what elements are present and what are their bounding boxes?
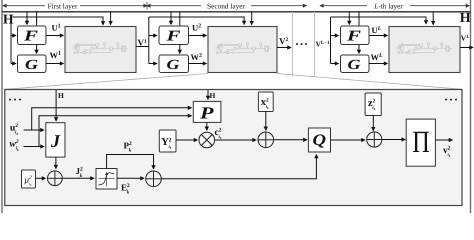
drop into gray box 2 (from H bus) [251, 12, 253, 25]
wire threshold to adder2 [117, 177, 144, 179]
label L-th layer [367, 1, 410, 10]
H line layer1 to gray box [13, 17, 104, 25]
wire UL [369, 35, 388, 37]
drop through FL (plain) [358, 12, 360, 26]
F1 box [18, 26, 47, 45]
GL box [341, 55, 370, 73]
multiplier circle-x [199, 132, 215, 148]
mu box [22, 170, 36, 188]
wire W1: G1 to gray box [46, 63, 64, 65]
svg-text:Second layer: Second layer [207, 1, 245, 10]
wire WL [369, 63, 388, 65]
u recurrent bus to P [32, 108, 192, 130]
layer 2 thumbnail [215, 43, 271, 54]
drop into FL top (arrow) [348, 12, 350, 25]
FL box [341, 26, 370, 45]
svg-text:G: G [25, 58, 38, 73]
x box [258, 92, 273, 112]
wire Pi output [435, 139, 452, 141]
wire adder4 to Pi [382, 139, 405, 141]
wire adder1 to threshold box [62, 177, 94, 179]
node H drop into P [207, 90, 209, 100]
wire multiplier to adder3 [215, 139, 257, 141]
wire z down to adder4 [372, 116, 374, 131]
svg-text:J: J [50, 131, 61, 151]
wire into G2 left [149, 63, 157, 65]
svg-text:First layer: First layer [48, 1, 78, 10]
adder2 [146, 171, 162, 187]
svg-text:Π: Π [412, 124, 430, 159]
wire F2 to G2 [179, 45, 181, 54]
Y box [159, 130, 176, 152]
drop through F1 (plain) [36, 12, 38, 26]
zoom diagonal right [277, 74, 462, 90]
svg-text:G: G [348, 58, 361, 73]
zoom diagonal left [5, 74, 208, 90]
z box [365, 93, 381, 116]
J box [46, 123, 65, 157]
adder4 [367, 132, 382, 147]
wire H into F1 left [11, 35, 16, 37]
svg-text:H: H [210, 91, 216, 100]
wire into FL left [331, 35, 339, 37]
wire adder3 to Q [274, 139, 307, 141]
dimension line: second layer span [147, 5, 306, 7]
detail box [5, 90, 462, 206]
H line layer2 to gray box [149, 17, 244, 25]
w recurrent bus to P [39, 116, 192, 147]
wire x down to adder3 [265, 112, 267, 131]
wire FL to GL [358, 45, 360, 54]
layerL input bus vertical [330, 17, 332, 64]
wire Y to multiplier [176, 139, 198, 141]
figure outer frame right border [470, 0, 472, 213]
H line layerL to gray box [331, 17, 427, 24]
wire J down to adder1 [55, 157, 57, 169]
label Second layer [201, 1, 251, 10]
wire U2 [189, 35, 207, 37]
node H drop into J [55, 90, 57, 121]
wire u into J [24, 129, 45, 131]
dimension line: L-th layer span [320, 5, 469, 7]
wire mu to adder1 [36, 177, 46, 179]
H vertical bus layer1 [10, 24, 12, 64]
layer 1 thumbnail [72, 43, 128, 54]
gray box layer L [389, 27, 460, 73]
drop through F2 (plain) [179, 12, 181, 26]
wire VL out [460, 47, 473, 49]
svg-text:H: H [58, 91, 64, 100]
drop into gray box 1 (from H bus) [110, 12, 112, 25]
layer2 input bus vertical [148, 17, 150, 64]
dimension line: first layer span [3, 5, 147, 7]
svg-text:···: ··· [295, 37, 309, 51]
drop into F1 top (arrow) [26, 12, 28, 25]
wire adder2 to Q bottom [161, 155, 316, 179]
drop into F2 top (arrow) [170, 12, 172, 25]
break separator left [292, 12, 294, 77]
wire V1 to layer2 bus [136, 46, 149, 48]
G2 box [159, 55, 189, 73]
gray box layer 2 [208, 27, 277, 73]
threshold box [96, 169, 117, 190]
wire V2 out [277, 47, 291, 49]
Q box [308, 128, 330, 152]
svg-text:Q: Q [313, 132, 327, 149]
F2 box [159, 26, 189, 45]
wire P down to multiplier [206, 122, 208, 130]
adder1 [48, 171, 63, 186]
svg-text:H: H [460, 11, 471, 26]
svg-text:···: ··· [8, 93, 23, 107]
wire U1: F1 to gray box [46, 35, 64, 37]
svg-text:L-th layer: L-th layer [373, 1, 403, 10]
wire w into J [24, 146, 45, 148]
wire W2 [189, 63, 207, 65]
wire H into G1 left [11, 63, 16, 65]
layer L thumbnail [396, 43, 452, 54]
figure outer frame left border [1, 0, 3, 213]
wire into GL left [331, 63, 339, 65]
svg-text:F: F [165, 29, 180, 45]
wire into F2 left [149, 35, 157, 37]
adder3 [258, 132, 274, 148]
drop into gray box L (from H bus) [432, 12, 434, 25]
H bus top line (figure frame top) [2, 11, 471, 13]
wire F1 to G1 [36, 45, 38, 54]
svg-text:F: F [23, 29, 38, 45]
Pi box [406, 119, 435, 166]
label First layer [45, 1, 80, 10]
wire Q to adder4 [331, 139, 366, 141]
gray box layer 1 [65, 27, 136, 73]
break separator right [314, 12, 316, 77]
svg-text:H: H [3, 12, 14, 27]
P box [193, 101, 221, 122]
svg-text:P: P [199, 104, 215, 123]
dimension tick at layer boundary [146, 2, 148, 10]
P feedback wire over threshold [107, 155, 154, 170]
svg-text:F: F [346, 29, 361, 45]
G1 box [18, 55, 47, 73]
svg-text:G: G [167, 58, 180, 73]
svg-text:···: ··· [444, 93, 459, 107]
